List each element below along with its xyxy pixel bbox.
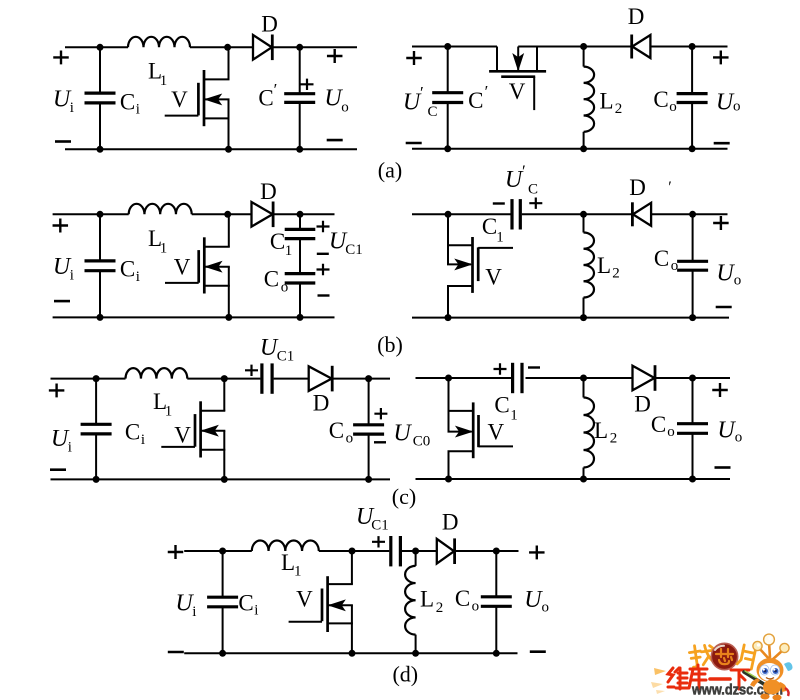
svg-text:V: V	[296, 586, 313, 611]
node: MOSFET drain junction (b-left)	[224, 211, 231, 218]
label UC0 (c-left)	[393, 421, 430, 450]
plus terminal right (a-right)	[713, 50, 729, 64]
plus terminal left (d)	[168, 545, 184, 559]
svg-text:1: 1	[160, 73, 168, 89]
svg-text:o: o	[733, 99, 741, 115]
capacitor C1 in series (c-left)	[262, 363, 272, 393]
diode D (a-left)	[253, 35, 272, 61]
svg-text:C: C	[651, 412, 666, 437]
node: Co top junction (c-right)	[689, 375, 696, 382]
svg-text:i: i	[136, 269, 140, 285]
svg-text:L: L	[597, 253, 611, 278]
node: L2 bottom junction (a-right)	[580, 145, 587, 152]
svg-text:C: C	[468, 88, 483, 113]
label U'C (a-right)	[403, 83, 438, 120]
svg-text:i: i	[68, 439, 72, 455]
node: MOSFET source junction (b-left)	[225, 314, 232, 321]
capacitor Ci (d)	[207, 551, 238, 653]
node: Ci top junction (d)	[219, 548, 226, 555]
svg-text:D: D	[313, 391, 330, 416]
svg-text:(a): (a)	[378, 158, 402, 183]
label Ci (a-left)	[120, 89, 140, 117]
svg-text:′: ′	[420, 83, 424, 102]
circuit (b)-right bottom rail wire	[412, 317, 729, 319]
minus polarity of C1 (c-right)	[528, 366, 540, 368]
node: L2 bottom junction (b-right)	[580, 314, 587, 321]
label Ui (b-left)	[53, 254, 74, 284]
minus polarity of Co (b-left)	[318, 294, 330, 296]
label UC1 (b-left)	[329, 229, 363, 259]
plus terminal right (a-left)	[327, 49, 343, 63]
node: MOSFET source junction (c-right)	[445, 476, 452, 483]
svg-text:C: C	[120, 89, 135, 114]
svg-text:V: V	[509, 79, 526, 104]
inductor L2 (d)	[405, 551, 415, 653]
node: Co bottom junction (c-left)	[365, 476, 372, 483]
minus terminal right (b-right)	[716, 306, 732, 309]
minus terminal right (c-right)	[715, 466, 731, 469]
label Uo (a-right)	[716, 90, 741, 116]
svg-text:o: o	[541, 600, 549, 616]
inductor L2 (b-right)	[584, 214, 595, 317]
node: C' top junction (a-left)	[296, 44, 303, 51]
label C1 (b-left)	[270, 229, 292, 259]
svg-text:o: o	[734, 273, 742, 289]
label Co (b-left)	[264, 267, 289, 296]
inductor L2 (c-right)	[584, 378, 595, 479]
node: C1 top junction (b-left)	[297, 211, 304, 218]
svg-text:C: C	[494, 393, 509, 418]
svg-text:D: D	[442, 509, 459, 534]
svg-text:′: ′	[668, 179, 672, 196]
svg-text:2: 2	[615, 101, 623, 117]
svg-text:L: L	[281, 550, 295, 575]
circuit (c)-left bottom rail wire	[51, 478, 391, 480]
minus terminal left (a-left)	[55, 140, 71, 143]
node: Ci bottom junction (b-left)	[97, 314, 104, 321]
inductor L2 (a-right)	[584, 47, 595, 149]
svg-text:o: o	[671, 258, 679, 274]
minus polarity of Co (c-left)	[374, 441, 386, 443]
diode D (b-left)	[252, 202, 274, 228]
node: MOSFET drain junction (c-left)	[221, 375, 228, 382]
svg-text:C: C	[427, 104, 437, 120]
capacitor Co (c-left)	[353, 379, 384, 480]
capacitor C1 in series (c-right)	[513, 363, 522, 393]
transistor V (a-right MOSFET, horizontal)	[489, 47, 546, 111]
inductor L1 (a-left)	[128, 37, 190, 48]
node: MOSFET drain junction (d)	[349, 548, 356, 555]
plus polarity of C1 (c-right)	[494, 363, 507, 374]
minus terminal left (d)	[168, 651, 184, 654]
svg-text:C: C	[270, 229, 285, 254]
minus terminal right (d)	[530, 650, 546, 653]
inductor L1 (d)	[252, 541, 319, 552]
svg-text:U: U	[717, 418, 736, 444]
svg-text:C: C	[329, 418, 344, 443]
plus terminal left (a-left)	[53, 50, 69, 64]
svg-text:L: L	[594, 418, 608, 443]
circuit (a)-right bottom rail wire	[412, 148, 728, 150]
svg-text:o: o	[281, 280, 289, 296]
svg-text:o: o	[735, 430, 743, 446]
circuit (d) top rail wire	[184, 550, 518, 552]
node: Ci bottom junction (a-left)	[97, 146, 104, 153]
node: Co bottom junction (b-right)	[689, 314, 696, 321]
label Uo (c-right)	[717, 418, 742, 446]
capacitor Co (a-right)	[677, 47, 708, 149]
svg-text:D: D	[261, 12, 278, 37]
svg-text:1: 1	[294, 563, 302, 579]
label U'C (b-right)	[505, 162, 538, 198]
capacitor Co (d)	[481, 551, 512, 653]
node: Co top junction (d)	[493, 548, 500, 555]
transistor V (c-right MOSFET, gate right)	[448, 378, 514, 479]
svg-text:2: 2	[610, 431, 618, 447]
plus terminal right (d)	[529, 545, 545, 559]
svg-text:′: ′	[522, 162, 526, 181]
svg-text:(b): (b)	[377, 332, 403, 357]
svg-text:i: i	[141, 432, 145, 448]
svg-text:1: 1	[165, 404, 173, 420]
svg-text:o: o	[667, 424, 675, 440]
minus terminal left (b-left)	[54, 300, 70, 303]
svg-text:V: V	[174, 423, 191, 448]
label Co (d)	[455, 586, 479, 615]
circuit (b)-left bottom rail wire	[53, 316, 335, 318]
capacitor C' (a-right)	[432, 47, 463, 149]
svg-text:i: i	[254, 603, 258, 619]
label Ci (c-left)	[125, 420, 145, 448]
svg-text:D: D	[628, 4, 645, 29]
capacitor Ci (b-left)	[85, 214, 116, 317]
label L2 (d)	[420, 587, 443, 617]
svg-text:L: L	[420, 587, 434, 612]
svg-text:C0: C0	[413, 434, 431, 450]
label Co (c-left)	[329, 418, 353, 447]
minus polarity of C1 (b-right)	[493, 202, 505, 204]
svg-text:C: C	[258, 86, 273, 111]
label Ci (b-left)	[120, 257, 140, 285]
svg-text:′: ′	[274, 80, 278, 99]
diode D (d)	[437, 538, 455, 564]
capacitor Co (b-right)	[677, 214, 708, 317]
diode D (c-left)	[309, 366, 333, 392]
svg-text:i: i	[136, 102, 140, 118]
svg-text:2: 2	[612, 266, 620, 282]
node: L2 bottom junction (c-right)	[580, 476, 587, 483]
label Uo (d)	[524, 587, 549, 615]
diode D (b-right, pointing left)	[632, 202, 651, 226]
capacitor Co (c-right)	[677, 378, 708, 479]
label UC1 (d)	[356, 504, 389, 534]
diode D (c-right)	[633, 365, 656, 391]
capacitor Co (b-left)	[285, 240, 316, 317]
transistor V (a-left MOSFET)	[165, 47, 230, 149]
plus terminal left (a-right)	[406, 51, 422, 65]
node: Co bottom junction (d)	[493, 650, 500, 657]
node: Ci top junction (c-left)	[93, 375, 100, 382]
svg-text:C1: C1	[277, 349, 295, 365]
node: L2 bottom junction (d)	[412, 650, 419, 657]
label C1 (b-right)	[482, 214, 504, 246]
svg-text:V: V	[485, 265, 502, 290]
svg-text:(c): (c)	[392, 484, 416, 509]
svg-text:1: 1	[160, 240, 168, 256]
svg-text:1: 1	[496, 230, 504, 246]
minus polarity of C1 (b-left)	[317, 253, 329, 255]
capacitor C1 in series (b-right)	[512, 199, 520, 229]
circuit (a)-right top rail wire	[412, 46, 728, 48]
node: MOSFET drain junction (b-right)	[445, 211, 452, 218]
label L1 (c-left)	[153, 389, 172, 420]
label C1 (c-right)	[494, 393, 517, 424]
label C' (a-left)	[258, 80, 277, 111]
svg-text:C: C	[528, 182, 538, 198]
label C' (a-right)	[468, 82, 488, 113]
label Co (b-right)	[654, 246, 678, 274]
svg-text:C: C	[120, 257, 135, 282]
label Co (a-right)	[653, 87, 676, 115]
node: Ci bottom junction (c-left)	[93, 476, 100, 483]
node: Co bottom junction (a-right)	[689, 145, 696, 152]
inductor L1 (b-left)	[129, 204, 192, 214]
label Uo (b-right)	[716, 261, 741, 289]
svg-text:C: C	[125, 420, 140, 445]
label Co (c-right)	[651, 412, 675, 440]
circuit (b)-left top rail wire	[53, 213, 335, 215]
svg-text:U: U	[716, 90, 735, 116]
node: L2 top junction (c-right)	[580, 375, 587, 382]
svg-text:o: o	[346, 431, 354, 447]
svg-text:o: o	[341, 100, 349, 116]
label L1 (d)	[281, 550, 302, 579]
svg-text:D: D	[629, 175, 646, 200]
circuit (c)-right top rail wire	[416, 377, 731, 379]
minus terminal left (c-left)	[50, 468, 66, 471]
node: MOSFET source junction (b-right)	[445, 314, 452, 321]
node: C' top junction (a-right)	[444, 43, 451, 50]
svg-text:C: C	[238, 591, 253, 616]
plus terminal left (b-left)	[53, 219, 69, 233]
svg-text:C1: C1	[345, 242, 363, 258]
plus polarity of C1 (d)	[372, 536, 385, 547]
circuit (c)-left top rail wire	[51, 378, 391, 380]
label L2 (c-right)	[594, 418, 617, 447]
node: Ci bottom junction (d)	[219, 650, 226, 657]
node: L2 top junction (a-right)	[580, 43, 587, 50]
node: MOSFET source junction (a-left)	[225, 146, 232, 153]
node: Co bottom junction (b-left)	[297, 314, 304, 321]
minus terminal right (a-right)	[714, 142, 730, 145]
node: Co bottom junction (c-right)	[689, 476, 696, 483]
svg-text:(d): (d)	[392, 662, 418, 687]
label Uo (a-left)	[324, 86, 348, 116]
svg-text:V: V	[171, 87, 188, 112]
plus terminal right (c-right)	[712, 383, 728, 397]
capacitor Ci (a-left)	[85, 47, 116, 149]
capacitor C1 in series (d)	[391, 536, 401, 566]
svg-text:C: C	[455, 586, 470, 611]
label UC1 (c-left)	[260, 335, 294, 365]
plus terminal left (c-left)	[49, 383, 65, 397]
watermark logo bottom-right	[646, 630, 800, 700]
node: Co top junction (a-right)	[689, 43, 696, 50]
node: L2 top junction (d)	[412, 548, 419, 555]
node: C' bottom junction (a-right)	[444, 145, 451, 152]
node: MOSFET drain junction (a-left)	[224, 44, 231, 51]
label L1 (a-left)	[148, 59, 167, 90]
svg-text:C: C	[264, 267, 279, 292]
label Ci (d)	[238, 591, 258, 619]
plus terminal right (b-right)	[713, 216, 729, 230]
circuit (a)-left boost converter: top rail wire	[65, 46, 357, 48]
node: Ci top junction (b-left)	[97, 211, 104, 218]
node: Co top junction (b-right)	[689, 211, 696, 218]
node: MOSFET drain junction (c-right)	[445, 375, 452, 382]
capacitor C' (a-left)	[284, 47, 315, 149]
plus polarity mark of C' (a-left)	[301, 79, 314, 90]
diode D (a-right, pointing left)	[632, 35, 651, 59]
capacitor Ci (c-left)	[81, 379, 112, 480]
node: L2 top junction (b-right)	[580, 211, 587, 218]
label Ui (d)	[175, 591, 196, 621]
svg-text:i: i	[70, 267, 74, 283]
transistor V (b-left MOSFET)	[165, 214, 230, 317]
label Ui (c-left)	[51, 426, 72, 456]
minus terminal left (a-right)	[406, 142, 422, 145]
label L2 (a-right)	[599, 89, 622, 117]
label L2 (b-right)	[597, 253, 620, 282]
svg-text:C: C	[654, 246, 669, 271]
node: MOSFET source junction (c-left)	[221, 476, 228, 483]
svg-text:L: L	[599, 89, 613, 114]
circuit (c)-right bottom rail wire	[416, 478, 731, 480]
svg-text:D: D	[634, 392, 651, 417]
svg-text:U: U	[393, 421, 412, 447]
transistor V (d MOSFET)	[289, 551, 353, 653]
svg-text:U: U	[716, 261, 735, 287]
svg-text:i: i	[192, 604, 196, 620]
svg-text:2: 2	[436, 600, 444, 616]
svg-text:V: V	[487, 420, 504, 445]
svg-text:U: U	[524, 587, 543, 613]
capacitor C1 (b-left)	[285, 214, 316, 238]
transistor V (c-left MOSFET)	[161, 379, 225, 480]
svg-text:V: V	[174, 255, 191, 280]
label Ui (a-left)	[53, 87, 74, 117]
node: Co top junction (c-left)	[365, 375, 372, 382]
svg-text:D: D	[260, 179, 277, 204]
node: Ci top junction (a-left)	[97, 44, 104, 51]
svg-text:o: o	[472, 599, 480, 615]
plus polarity of Co (b-left)	[317, 264, 330, 275]
node: MOSFET source junction (d)	[349, 650, 356, 657]
svg-text:C: C	[653, 87, 668, 112]
svg-text:C1: C1	[371, 517, 389, 533]
svg-text:C: C	[482, 214, 497, 239]
inductor L1 (c-left)	[126, 368, 188, 379]
circuit (d) bottom rail wire	[184, 652, 517, 654]
plus polarity of C1 (b-right)	[529, 198, 542, 209]
svg-text:1: 1	[285, 243, 293, 259]
plus polarity of Co (c-left)	[374, 408, 387, 419]
minus terminal right (a-left)	[327, 139, 343, 142]
circuit (b)-right top rail wire	[412, 213, 728, 215]
plus polarity of C1 (c-left)	[245, 365, 258, 376]
transistor V (b-right MOSFET, gate right)	[447, 214, 513, 317]
svg-text:o: o	[669, 99, 677, 115]
circuit (a)-left bottom rail wire	[65, 148, 357, 150]
plus polarity of C1 (b-left)	[317, 221, 330, 232]
node: C' bottom junction (a-left)	[296, 146, 303, 153]
label L1 (b-left)	[148, 226, 167, 256]
svg-text:′: ′	[485, 82, 489, 101]
svg-text:1: 1	[510, 408, 518, 424]
svg-text:i: i	[70, 100, 74, 116]
